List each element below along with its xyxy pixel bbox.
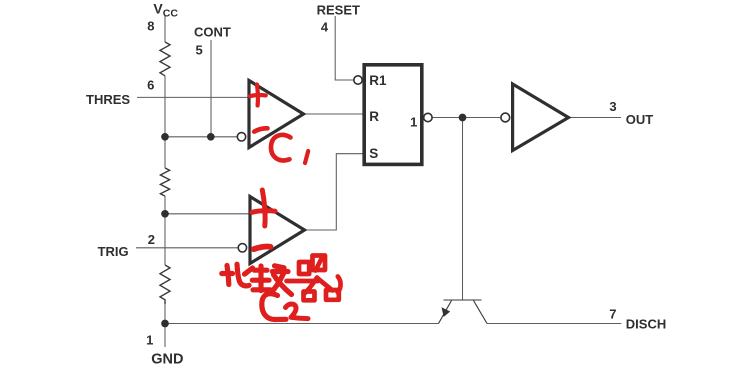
- svg-text:OUT: OUT: [626, 112, 654, 127]
- wire RA to node THRES tap: [164, 76, 166, 168]
- wire buffer output to OUT: [569, 117, 622, 119]
- svg-text:CONT: CONT: [194, 25, 231, 40]
- annotation red plus on comparator C1: [250, 85, 266, 106]
- wire DISCH: [487, 323, 621, 325]
- wire comparator C1 inverting input: [165, 136, 237, 138]
- svg-text:RESET: RESET: [317, 2, 360, 17]
- comparator C1 inverting bubble: [237, 133, 245, 141]
- wire Vcc vertical to resistor RA: [164, 16, 166, 42]
- annotation red minus on comparator C2: [254, 247, 271, 250]
- wire TRIG input: [136, 247, 238, 249]
- annotation red hanzi qi: [287, 256, 341, 301]
- svg-text:TRIG: TRIG: [98, 244, 129, 259]
- annotation red C1: [271, 135, 291, 161]
- annotation red minus on comparator C1: [254, 128, 267, 131]
- svg-text:1: 1: [146, 333, 153, 348]
- transistor Q1 emitter arrow: [442, 307, 451, 317]
- node CONT junction: [207, 133, 215, 141]
- node latch output junction: [459, 114, 467, 122]
- buffer input bubble: [501, 113, 510, 122]
- annotation red C2 subscript 2: [286, 304, 309, 319]
- wire RESET to latch R1: [335, 16, 354, 80]
- comparator C2 inverting bubble: [238, 244, 246, 252]
- wire GND rail: [165, 323, 439, 325]
- wire CONT vertical: [210, 40, 212, 137]
- svg-text:2: 2: [148, 232, 155, 247]
- wire comparator C2 noninverting input: [165, 213, 251, 215]
- annotation red C1 subscript 1: [305, 151, 308, 163]
- svg-text:R: R: [369, 109, 379, 124]
- svg-text:5: 5: [196, 43, 203, 58]
- transistor Q1 base bar: [444, 299, 482, 301]
- comparator C1: [249, 81, 304, 148]
- annotation red hanzi bi: [222, 264, 253, 286]
- comparator C2: [250, 197, 305, 264]
- wire RB to node TRIG tap: [164, 196, 166, 265]
- svg-text:3: 3: [609, 99, 616, 114]
- svg-text:GND: GND: [151, 351, 183, 367]
- node GND junction: [161, 320, 169, 328]
- svg-text:DISCH: DISCH: [626, 316, 666, 331]
- wire comparator C1 output to latch R: [304, 113, 363, 115]
- svg-text:4: 4: [321, 20, 329, 35]
- svg-text:1: 1: [410, 115, 417, 130]
- svg-text:8: 8: [147, 18, 154, 33]
- svg-text:THRES: THRES: [86, 92, 130, 107]
- wire latch output to buffer: [432, 117, 501, 119]
- node THRES tap junction: [161, 133, 169, 141]
- latch R1 input bubble: [354, 76, 362, 84]
- annotation red C2: [262, 294, 286, 320]
- svg-text:7: 7: [609, 307, 616, 322]
- svg-text:VCC: VCC: [153, 0, 178, 19]
- wire THRES input: [137, 96, 250, 98]
- annotation red plus on comparator C2: [252, 190, 275, 226]
- node TRIG tap junction: [161, 210, 169, 218]
- resistor RC: [160, 265, 170, 304]
- wire RC to GND: [164, 304, 166, 347]
- resistor RA: [160, 42, 170, 76]
- annotation red hanzi jiao: [252, 266, 291, 295]
- svg-text:R1: R1: [369, 73, 387, 88]
- wire latch output to transistor base: [462, 118, 464, 301]
- latch U1: [364, 65, 422, 165]
- transistor Q1 emitter: [439, 301, 452, 324]
- svg-text:6: 6: [147, 78, 154, 93]
- latch output bubble: [424, 113, 432, 121]
- svg-text:S: S: [369, 146, 378, 161]
- wire comparator C2 output to latch S: [305, 154, 363, 230]
- buffer U2: [513, 84, 569, 151]
- resistor RB: [160, 168, 169, 196]
- transistor Q1 collector: [474, 301, 488, 324]
